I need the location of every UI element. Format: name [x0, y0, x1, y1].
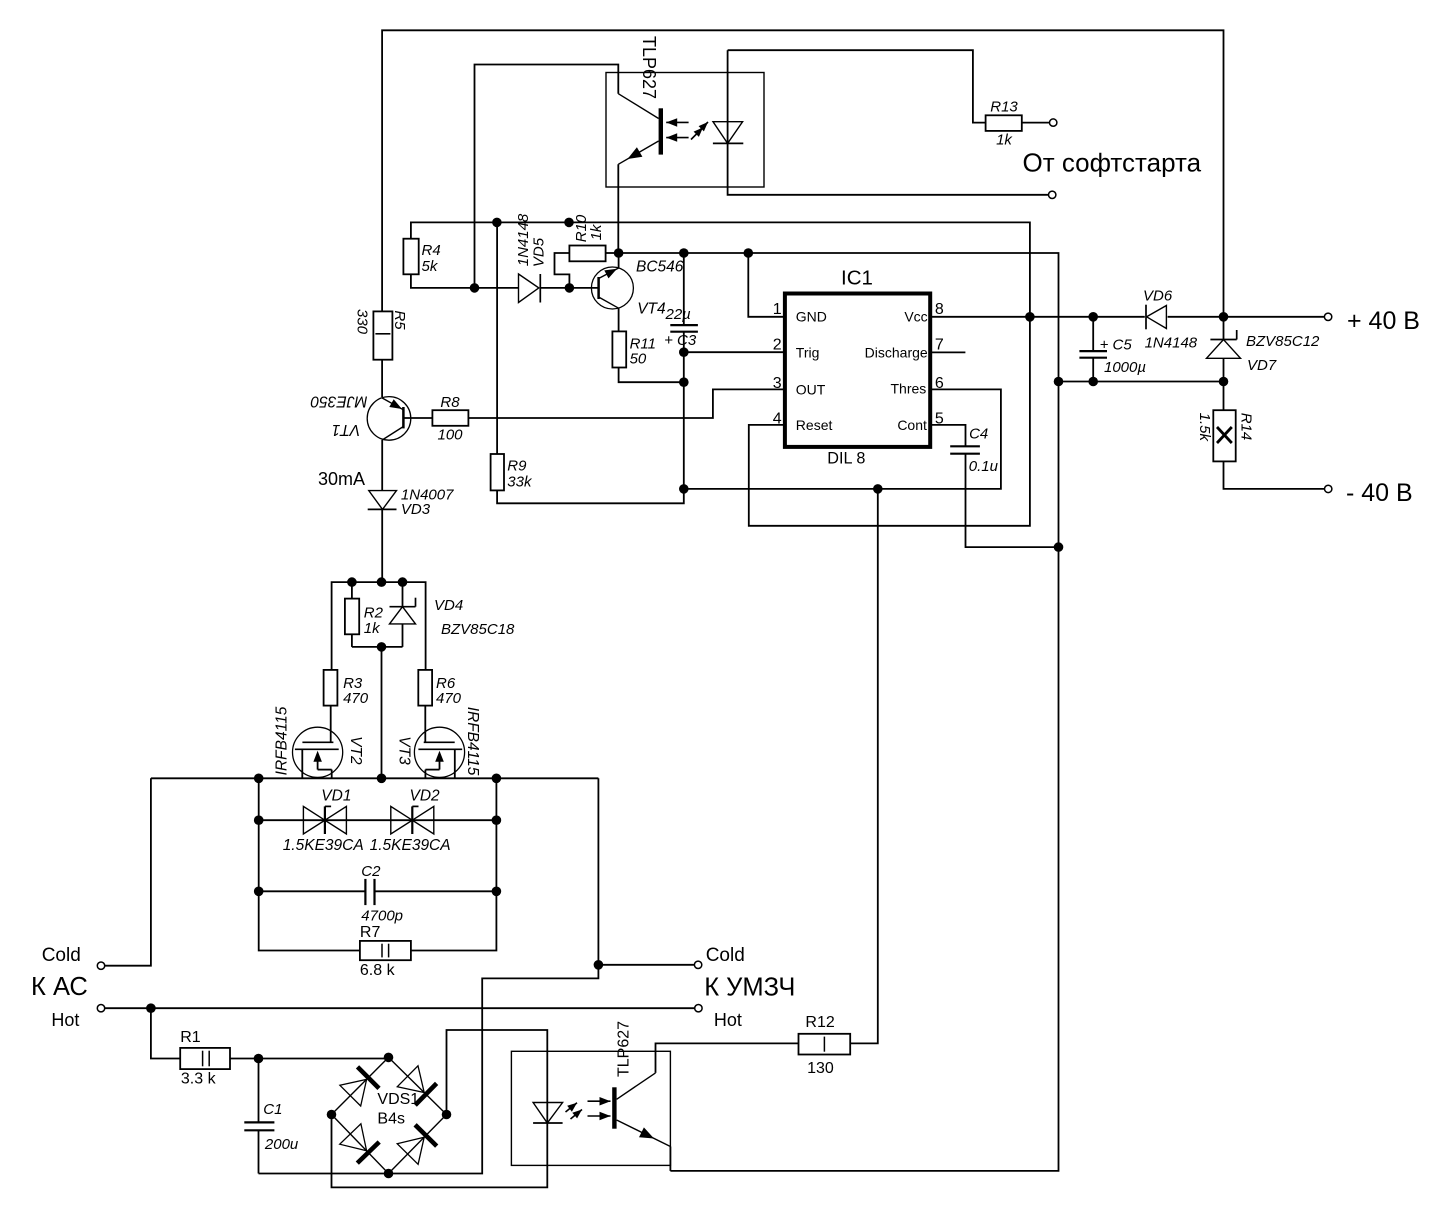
resistor R6: [418, 670, 432, 706]
wire Hot to R1: [151, 1008, 180, 1058]
optocoupler U2 LED emission arrow lower: [691, 128, 703, 140]
svg-text:Discharge: Discharge: [865, 344, 928, 360]
svg-text:Cold: Cold: [706, 945, 745, 966]
capacitor C2 plates: [364, 879, 366, 905]
capacitor C1 plates: [244, 1121, 274, 1123]
optocoupler U3 emitter diagonal with arrow: [617, 1120, 671, 1147]
transistor VT4 base bar: [597, 277, 600, 299]
resistor R5: [373, 311, 392, 359]
transistor VT4 circle: [591, 267, 633, 309]
svg-text:Vcc: Vcc: [904, 309, 927, 325]
wire MOSFET source bus: [151, 777, 599, 779]
junction dot 29: [492, 887, 502, 897]
terminal from softstart upper: [1050, 119, 1057, 126]
junction dot 14: [1219, 312, 1229, 322]
svg-text:BZV85C18: BZV85C18: [441, 621, 515, 638]
transistor VT4 emitter diagonal with arrow: [599, 268, 619, 279]
svg-text:GND: GND: [796, 309, 827, 325]
junction dot 1: [492, 218, 502, 228]
svg-text:50: 50: [630, 351, 647, 368]
TVS VD1: [303, 806, 325, 834]
wire pin8 Vcc to VD6: [930, 316, 1145, 318]
junction dot 34: [327, 1110, 337, 1120]
wire R12 to Thres node: [850, 489, 878, 1044]
resistor R13: [986, 115, 1022, 131]
svg-text:5: 5: [935, 410, 944, 427]
optocoupler U3 LED emission arrow upper: [566, 1103, 578, 1112]
wire C5 bottom lead: [1092, 358, 1094, 382]
junction dot 5: [614, 248, 624, 258]
wire Cold AC branch: [105, 778, 151, 965]
svg-text:8: 8: [935, 301, 944, 318]
wire pin1 GND: [748, 253, 785, 317]
svg-text:R7: R7: [360, 924, 381, 941]
junction dot 16: [1088, 377, 1098, 387]
optocoupler U2 phototransistor base bar: [659, 108, 663, 154]
svg-text:+ 40 В: + 40 В: [1347, 307, 1420, 335]
diode VD6 triangle: [1147, 306, 1167, 329]
optocoupler U2 LED triangle: [713, 122, 743, 144]
optocoupler U2 light arrow lower: [666, 137, 688, 139]
svg-text:B4s: B4s: [377, 1111, 405, 1128]
optocoupler U3 TLP627 body: [511, 1051, 670, 1165]
diode VD5 triangle: [519, 274, 539, 303]
wire R1 to bridge top: [230, 1058, 389, 1060]
svg-text:1k: 1k: [364, 620, 381, 637]
transistor VT1 emitter diagonal with arrow: [382, 398, 403, 410]
resistor R7: [360, 941, 411, 960]
wire LED anode to R13: [728, 50, 986, 122]
bridge VDS1 edge BL: [332, 1115, 389, 1174]
optocoupler U2 emitter diagonal with arrow: [618, 141, 658, 164]
zener VD4 cathode bar with hook: [390, 606, 416, 608]
diode VD3 triangle: [369, 491, 397, 510]
svg-text:Thres: Thres: [891, 380, 927, 396]
svg-text:130: 130: [807, 1060, 834, 1077]
wire C2 row right: [375, 890, 497, 892]
wire R14 to -40V terminal: [1224, 461, 1325, 489]
bridge VDS1 diode top-right: [397, 1066, 424, 1093]
junction dot 28: [254, 887, 264, 897]
junction dot 26: [254, 815, 264, 825]
junction dot 27: [492, 815, 502, 825]
wire bridge minus to LED cathode: [332, 1115, 548, 1188]
wire pin5 Cont to C4: [930, 425, 965, 446]
svg-text:VDS1: VDS1: [377, 1091, 419, 1108]
zener VD4 triangle: [390, 607, 416, 624]
wire C5 top lead: [1092, 317, 1094, 351]
optocoupler U2 LED cathode bar: [713, 142, 743, 144]
junction dot 24: [377, 774, 387, 784]
junction dot 25: [492, 774, 502, 784]
terminal from softstart lower: [1049, 191, 1056, 198]
wire TLP627 emitter down to R10 node: [617, 164, 619, 253]
resistor R2: [345, 599, 359, 635]
svg-text:IRFB4115: IRFB4115: [274, 706, 291, 775]
optocoupler U2 LED anode lead: [727, 50, 729, 143]
optocoupler U2 TLP627 body: [606, 73, 764, 188]
transistor VT1 circle: [367, 397, 411, 441]
wire R10 right lead: [606, 252, 619, 254]
svg-text:330: 330: [354, 309, 371, 335]
optocoupler U2 light arrow upper: [666, 121, 688, 123]
resistor R10: [569, 246, 605, 262]
zener VD7 triangle: [1207, 340, 1241, 359]
wire bus to bridge plus riser: [259, 778, 599, 1173]
resistor R12: [799, 1034, 851, 1055]
wire VT1 base to R8: [403, 417, 432, 419]
svg-text:C4: C4: [969, 426, 988, 443]
optocoupler U3 LED triangle: [533, 1103, 563, 1124]
wire VD5 cathode to VT4 base: [540, 287, 598, 289]
wire R3 to VT2 gate: [330, 706, 332, 743]
svg-text:OUT: OUT: [796, 381, 826, 397]
svg-text:1N4148: 1N4148: [515, 213, 532, 266]
optocoupler U3 LED cathode bar: [533, 1122, 563, 1124]
svg-text:VT3: VT3: [396, 736, 413, 765]
svg-text:33k: 33k: [507, 474, 533, 491]
junction dot 17: [1219, 377, 1229, 387]
wire opto2 collector to R12: [656, 1043, 799, 1073]
optocoupler U2 phototransistor collector diagonal: [618, 94, 658, 119]
resistor R11: [612, 331, 626, 367]
svg-text:3.3 k: 3.3 k: [181, 1071, 217, 1088]
junction dot 12: [1025, 312, 1035, 322]
capacitor C5 plates: [1079, 350, 1107, 352]
svg-text:6.8 k: 6.8 k: [360, 962, 396, 979]
svg-text:Cont: Cont: [897, 417, 927, 433]
wire IC GND rail: [619, 253, 1059, 382]
svg-text:К АС: К АС: [31, 973, 88, 1001]
svg-text:К УМЗЧ: К УМЗЧ: [704, 974, 795, 1002]
svg-text:1: 1: [773, 301, 782, 318]
wire TLP627 collector feed: [475, 65, 619, 288]
svg-text:C1: C1: [263, 1101, 282, 1118]
wire C2 row left: [259, 890, 366, 892]
zener VD7 cathode bar with hook: [1210, 339, 1236, 341]
svg-text:R4: R4: [422, 242, 441, 259]
terminal Hot UMZCH: [695, 1005, 702, 1012]
wire R2 bottom lead: [351, 634, 353, 647]
terminal -40V: [1325, 485, 1332, 492]
junction dot 23: [254, 774, 264, 784]
optocoupler U2 LED emission arrow upper: [696, 122, 708, 134]
svg-text:R1: R1: [180, 1029, 201, 1046]
wire upper gate bus: [332, 582, 426, 670]
resistor R1: [180, 1048, 230, 1069]
bridge VDS1 diode bottom-right: [397, 1137, 424, 1164]
wire LED cathode rail to terminal: [728, 143, 1049, 194]
wire bridge plus to LED anode: [447, 1030, 548, 1123]
svg-text:R8: R8: [440, 394, 460, 411]
junction dot 10: [679, 484, 689, 494]
resistor R14 fusible: [1213, 410, 1235, 461]
junction dot 35: [442, 1110, 452, 1120]
wire VT4 emitter lead: [618, 253, 620, 268]
svg-text:2: 2: [773, 337, 782, 354]
junction dot 13: [1088, 312, 1098, 322]
svg-text:IC1: IC1: [841, 266, 873, 289]
wire VD7 top lead: [1223, 317, 1225, 340]
svg-text:1k: 1k: [588, 223, 605, 240]
resistor R9: [491, 454, 504, 490]
junction dot 4: [565, 283, 575, 293]
svg-text:R12: R12: [805, 1014, 834, 1031]
wire VD1 VD2 row: [259, 819, 497, 821]
wire VD7 bottom lead: [1223, 358, 1225, 381]
svg-text:+ C5: + C5: [1100, 337, 1133, 354]
wire C4 bottom to GND line: [966, 454, 1059, 547]
svg-text:5k: 5k: [422, 258, 439, 275]
wire R2 top lead: [351, 582, 353, 599]
wire VD4 top lead: [402, 582, 404, 607]
svg-text:470: 470: [436, 690, 462, 707]
junction dot 31: [594, 960, 604, 970]
svg-text:R2: R2: [364, 605, 384, 622]
terminal +40V: [1324, 313, 1331, 320]
diode VD6 cathode bar: [1145, 305, 1147, 330]
junction dot 8: [679, 347, 689, 357]
diode VD5 cathode bar: [539, 274, 541, 303]
svg-text:VT4: VT4: [637, 301, 666, 318]
bridge VDS1 edge TL: [332, 1057, 389, 1114]
junction dot 15: [1054, 377, 1064, 387]
svg-text:R13: R13: [990, 99, 1018, 116]
svg-text:TLP627: TLP627: [616, 1021, 633, 1077]
bridge VDS1 edge TR: [389, 1057, 447, 1114]
svg-text:100: 100: [437, 427, 463, 444]
diode VD3 cathode bar: [368, 508, 397, 510]
svg-text:Reset: Reset: [796, 417, 833, 433]
junction dot 20: [377, 577, 387, 587]
svg-text:3: 3: [773, 375, 782, 392]
svg-text:- 40 В: - 40 В: [1346, 479, 1413, 507]
resistor R8: [432, 410, 468, 426]
capacitor C3 plates: [670, 324, 698, 326]
svg-text:VD3: VD3: [401, 501, 431, 518]
wire lower gate bus: [352, 646, 403, 648]
transistor VT2 MOSFET: [293, 727, 343, 777]
svg-text:1N4148: 1N4148: [1145, 335, 1198, 352]
svg-text:22µ: 22µ: [665, 306, 691, 323]
junction dot 30: [146, 1003, 156, 1013]
svg-text:VD2: VD2: [410, 787, 441, 804]
terminal Cold UMZCH: [694, 961, 701, 968]
terminal Cold AC: [97, 962, 104, 969]
svg-text:R5: R5: [391, 310, 408, 330]
optocoupler U3 light arrow upper: [588, 1100, 611, 1102]
svg-text:DIL 8: DIL 8: [827, 450, 865, 468]
wire R4 bottom to VD5 anode: [411, 274, 519, 288]
wire R13 to terminal: [1023, 122, 1050, 124]
wire VD6 to +40V terminal: [1168, 316, 1325, 318]
wire Hot rail: [105, 1007, 695, 1009]
junction dot 32: [254, 1054, 264, 1064]
svg-text:0.1u: 0.1u: [969, 458, 999, 475]
wire R10 left step: [555, 253, 570, 288]
transistor VT4 collector diagonal: [599, 297, 619, 308]
svg-text:4700p: 4700p: [361, 908, 403, 925]
junction dot 6: [679, 248, 689, 258]
wire opto2 emitter drop: [669, 1147, 671, 1171]
svg-text:C2: C2: [361, 863, 381, 880]
optocoupler U3 collector diagonal: [617, 1073, 656, 1099]
junction dot 2: [564, 218, 574, 228]
svg-text:Hot: Hot: [714, 1010, 742, 1030]
svg-text:1.5k: 1.5k: [1196, 413, 1213, 443]
TVS VD2: [391, 806, 413, 834]
svg-text:VD5: VD5: [531, 237, 548, 267]
junction dot 19: [347, 577, 357, 587]
wire R14 top lead: [1223, 382, 1225, 411]
IC U1 IC1 body: [785, 294, 930, 447]
transistor VT1 base bar: [402, 407, 405, 428]
terminal Hot AC: [97, 1005, 104, 1012]
junction dot 18: [1054, 542, 1064, 552]
wire R7 right ladder: [411, 778, 497, 950]
wire VT4 collector lead: [618, 308, 620, 331]
wire R11 bottom: [619, 368, 684, 383]
svg-text:1.5KE39CA: 1.5KE39CA: [370, 837, 451, 854]
optocoupler U3 LED emission arrow lower: [571, 1110, 583, 1120]
svg-text:MJE350: MJE350: [310, 393, 367, 410]
wire VT1 collector to VD3: [381, 440, 383, 491]
wire R8 to pin3 OUT: [468, 389, 785, 418]
svg-text:IRFB4115: IRFB4115: [464, 707, 481, 776]
junction dot 9: [679, 377, 689, 387]
wire R9 top lead: [496, 222, 498, 454]
wire +40V top rail from R5 emitter feed: [382, 30, 1223, 317]
svg-text:200u: 200u: [264, 1136, 299, 1153]
optocoupler U3 light arrow lower: [588, 1115, 611, 1117]
wire GND line down to opto2 emitter: [670, 382, 1058, 1171]
junction dot 3: [470, 283, 480, 293]
wire R4 top rail and Reset path: [411, 222, 1030, 525]
svg-text:6: 6: [935, 375, 944, 392]
wire pin2 Trig: [684, 351, 785, 353]
wire left ladder to R7: [259, 778, 360, 950]
svg-text:1.5KE39CA: 1.5KE39CA: [283, 837, 364, 854]
wire centre source line: [381, 647, 383, 778]
wire C3 plus lead: [683, 253, 685, 325]
bridge VDS1 diode top-left: [340, 1079, 367, 1106]
resistor R4: [403, 239, 418, 275]
wire pin7 stub: [930, 351, 965, 353]
svg-text:BC546: BC546: [636, 259, 684, 276]
svg-text:1k: 1k: [996, 132, 1013, 149]
wire C1 top lead: [258, 1059, 260, 1123]
svg-text:VD6: VD6: [1143, 288, 1173, 305]
svg-text:470: 470: [343, 690, 369, 707]
wire Cold UMZCH: [598, 964, 694, 966]
junction dot 7: [744, 248, 754, 258]
svg-text:От софтстарта: От софтстарта: [1023, 148, 1202, 178]
junction dot 11: [873, 484, 883, 494]
bridge VDS1 edge BR: [389, 1115, 447, 1174]
svg-text:R14: R14: [1237, 413, 1254, 441]
bridge VDS1 diode bottom-left: [340, 1124, 367, 1151]
wire minus rail under C5: [1059, 381, 1224, 383]
svg-text:VD4: VD4: [434, 597, 463, 614]
svg-text:Hot: Hot: [51, 1010, 79, 1030]
wire R5 to VT1 emitter: [381, 360, 383, 397]
junction dot 33: [384, 1053, 394, 1063]
junction dot 36: [384, 1169, 394, 1179]
svg-text:Cold: Cold: [42, 945, 81, 966]
svg-text:1000µ: 1000µ: [1104, 359, 1146, 376]
wire C1 bottom lead: [258, 1130, 260, 1173]
svg-text:VT2: VT2: [347, 736, 364, 765]
svg-text:+ C3: + C3: [664, 332, 697, 349]
svg-text:4: 4: [773, 410, 782, 427]
junction dot 22: [377, 642, 387, 652]
wire R6 to VT3 gate: [424, 706, 426, 743]
svg-text:TLP627: TLP627: [639, 36, 659, 99]
junction dot 21: [398, 577, 408, 587]
resistor R3: [324, 670, 338, 706]
svg-text:VT1: VT1: [332, 421, 360, 438]
wire VD4 bottom lead: [402, 624, 404, 647]
optocoupler U3 phototransistor base bar: [612, 1087, 616, 1128]
svg-text:Trig: Trig: [796, 344, 820, 360]
svg-text:7: 7: [935, 337, 944, 354]
wire Thres pin6: [684, 389, 1001, 489]
transistor VT3 MOSFET: [414, 727, 464, 777]
svg-text:VD7: VD7: [1247, 357, 1277, 374]
transistor VT1 collector diagonal: [382, 427, 403, 441]
svg-text:VD1: VD1: [321, 787, 351, 804]
svg-text:30mA: 30mA: [318, 469, 365, 489]
wire VD3 to gate bus: [381, 509, 383, 582]
svg-text:R9: R9: [507, 458, 527, 475]
wire C3 minus to R9 bottom: [497, 332, 684, 504]
capacitor C4 plates: [950, 445, 980, 447]
svg-text:BZV85C12: BZV85C12: [1246, 333, 1320, 350]
